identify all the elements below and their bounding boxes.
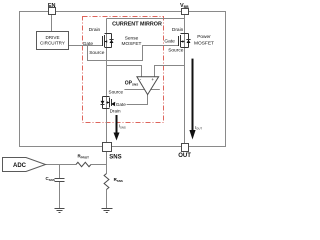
svg-text:EN: EN [48,3,56,9]
svg-text:SNS: SNS [109,154,121,160]
svg-text:Gate: Gate [164,39,175,45]
svg-text:RPROT: RPROT [78,154,90,160]
svg-text:Sense: Sense [125,35,139,41]
svg-text:Source: Source [168,48,184,54]
svg-text:MOSFET: MOSFET [122,41,142,47]
svg-text:Power: Power [197,34,211,40]
svg-text:Drain: Drain [110,108,121,113]
svg-text:Source: Source [109,90,124,95]
svg-text:CSNS: CSNS [46,176,55,182]
svg-text:DRIVE: DRIVE [45,35,59,40]
svg-text:OUT: OUT [178,153,191,159]
svg-text:Gate: Gate [83,41,94,47]
svg-text:MOSFET: MOSFET [194,40,214,46]
svg-text:Gate: Gate [116,102,126,107]
svg-text:CIRCUITRY: CIRCUITRY [40,41,65,46]
svg-text:+: + [151,77,154,82]
svg-text:Drain: Drain [89,27,101,33]
svg-text:ADC: ADC [13,163,27,169]
svg-text:Source: Source [89,50,105,56]
svg-text:ISNS: ISNS [119,124,126,130]
svg-text:RSNS: RSNS [114,177,123,183]
svg-text:CURRENT MIRROR: CURRENT MIRROR [112,21,162,27]
svg-text:IOUT: IOUT [195,125,202,131]
svg-text:Drain: Drain [172,27,184,33]
